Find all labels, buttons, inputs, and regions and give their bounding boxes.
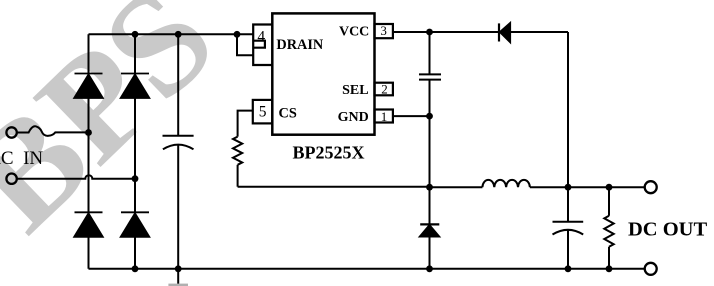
pin 5 box	[253, 100, 272, 124]
wire filter cap column top	[177, 34, 179, 135]
ground stub (clipped)	[168, 284, 188, 286]
svg-text:GND: GND	[338, 110, 369, 125]
svg-text:5: 5	[259, 104, 267, 121]
svg-text:BP2525X: BP2525X	[293, 142, 365, 162]
svg-text:DC OUT: DC OUT	[628, 218, 707, 240]
wire VCC rail	[393, 31, 568, 33]
wire GND pin	[393, 115, 430, 117]
diode D1 bridge top-left	[75, 73, 103, 75]
terminal AC bottom circle	[6, 174, 16, 184]
capacitor C2 (VCC)	[419, 74, 441, 79]
resistor R2 (load)	[604, 216, 613, 247]
wire VCC cap top lead	[429, 32, 431, 74]
resistor R1 (CS)	[233, 137, 242, 165]
node dot bottom rail / right column	[132, 265, 139, 272]
diode D3 bridge bottom-left	[75, 211, 103, 213]
wire right bridge column	[134, 34, 136, 268]
pin 3 box	[375, 24, 393, 38]
node dot switch node	[426, 184, 433, 191]
wire top rail (bridge output to DRAIN)	[89, 33, 254, 35]
node dot DRAIN	[234, 31, 241, 38]
terminal DC OUT top circle	[645, 181, 657, 193]
node dot top rail / cap column	[175, 31, 182, 38]
wire CS return	[238, 186, 430, 188]
fuse F1	[17, 126, 89, 136]
wire output resistor top lead	[608, 187, 610, 216]
op IC body BP2525X U1	[272, 13, 374, 134]
node dot bottom rail / load resistor	[606, 265, 613, 272]
node dot top rail / right column	[132, 31, 139, 38]
node dot load resistor top	[606, 184, 613, 191]
wire inductor to output	[530, 186, 645, 188]
node dot bottom rail / output cap	[565, 265, 572, 272]
wire DRAIN node down	[237, 34, 253, 55]
wire output cap bottom lead	[567, 230, 569, 269]
node dot bottom rail / freewheel diode	[426, 265, 433, 272]
pin 2 box	[375, 83, 393, 96]
wire left bridge column	[88, 34, 90, 268]
wire bottom rail	[89, 268, 645, 270]
svg-text:DRAIN: DRAIN	[276, 37, 324, 53]
wire switch node to inductor	[430, 186, 483, 188]
wire CS pin to resistor	[238, 111, 253, 137]
diode D5 (freewheel, pointing up)	[420, 223, 439, 225]
svg-text:SEL: SEL	[342, 83, 368, 98]
pin 4 box	[253, 25, 272, 66]
node dot VCC	[426, 29, 433, 36]
svg-text:BPS: BPS	[0, 0, 245, 262]
wire output cap top lead	[567, 187, 569, 222]
svg-text:VCC: VCC	[339, 24, 369, 39]
wire CS resistor down	[237, 165, 239, 187]
wire AC bottom with crossover hop	[17, 175, 135, 178]
wire output resistor bottom lead	[608, 247, 610, 269]
svg-text:CS: CS	[279, 106, 297, 122]
svg-text:1: 1	[381, 109, 388, 124]
capacitor C3 (output, electrolytic)	[553, 222, 584, 235]
wire VCC cap bottom lead	[429, 80, 431, 117]
terminal DC OUT bottom circle	[645, 263, 657, 275]
diode D2 bridge top-right	[121, 73, 149, 75]
svg-text:AC IN: AC IN	[0, 148, 43, 169]
wire filter cap column bottom	[177, 145, 179, 286]
wire top-right corner down	[567, 32, 569, 187]
node dot GND	[426, 113, 433, 120]
svg-text:4: 4	[257, 28, 265, 45]
node dot fuse / left column	[85, 129, 92, 136]
wire switch node to freewheel diode	[429, 187, 431, 224]
wire GND down to switch node	[429, 116, 431, 187]
capacitor C1 (filter, electrolytic)	[163, 136, 194, 150]
inductor L1	[482, 180, 529, 187]
node dot bottom rail / cap column	[175, 265, 182, 272]
terminal AC top circle	[6, 127, 16, 137]
svg-text:2: 2	[381, 82, 388, 97]
node dot AC bottom / right column	[132, 175, 139, 182]
pin 1 box	[375, 110, 393, 123]
diode D6 (VCC, pointing left)	[498, 23, 500, 41]
wire freewheel diode to bottom rail	[429, 237, 431, 269]
svg-text:3: 3	[380, 23, 387, 38]
diode D4 bridge bottom-right	[121, 211, 149, 213]
node dot output cap top	[565, 184, 572, 191]
